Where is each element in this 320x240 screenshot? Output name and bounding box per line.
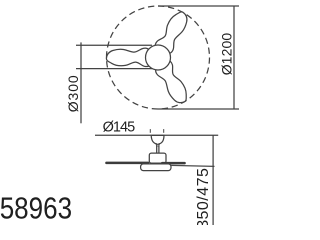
svg-text:350/475: 350/475 xyxy=(195,168,212,225)
svg-text:Ø145: Ø145 xyxy=(103,119,136,135)
svg-text:58963: 58963 xyxy=(0,191,72,225)
svg-text:Ø300: Ø300 xyxy=(65,75,81,112)
svg-text:Ø1200: Ø1200 xyxy=(219,33,235,76)
